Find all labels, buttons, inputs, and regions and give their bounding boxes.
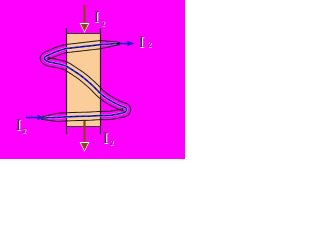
bar body (tan rod) [67, 34, 101, 127]
svg-text:2: 2 [110, 139, 114, 147]
coil tube lower outline [40, 41, 123, 118]
label I2 (coil entry current) [16, 117, 27, 135]
svg-text:2: 2 [22, 127, 26, 135]
label I1 (bottom bar current) [103, 130, 114, 147]
svg-text:I: I [94, 9, 99, 26]
top bar-current arrow (brown, down) [80, 5, 90, 33]
exit current arrow (blue, top right) [119, 41, 135, 46]
svg-text:I: I [16, 117, 21, 134]
bar top edge [66, 33, 101, 35]
svg-text:2: 2 [148, 40, 152, 48]
label I1 (top bar current) [94, 9, 106, 27]
label I2 (coil exit current) [139, 34, 152, 51]
bar right edge [100, 28, 102, 134]
svg-text:2: 2 [101, 19, 105, 27]
bottom bar-current arrow (brown, down) [80, 121, 90, 152]
bar bottom edge [66, 126, 101, 128]
coil wire white halo [41, 44, 127, 119]
svg-text:I: I [139, 34, 144, 51]
svg-text:I: I [103, 130, 108, 147]
coil wire core black dashes [41, 44, 127, 119]
coil wire blue core [41, 44, 127, 119]
entry current arrow (blue, bottom left) [26, 115, 45, 120]
coil tube upper outline [41, 45, 131, 122]
bar left edge [66, 28, 68, 134]
